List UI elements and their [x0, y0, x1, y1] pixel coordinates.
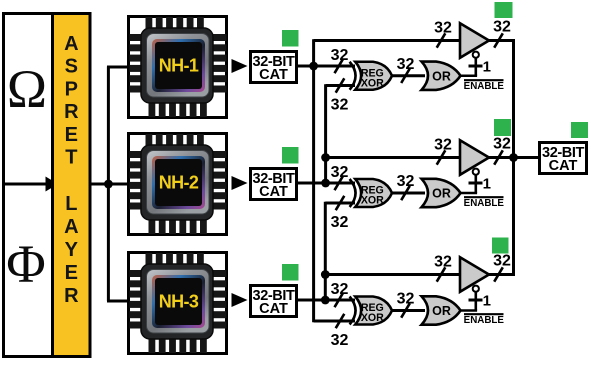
enable overline 2: [464, 196, 504, 198]
enable bubble buffer 2: [473, 169, 479, 175]
junction node C to buffer 3: [321, 270, 330, 279]
svg-text:32: 32: [434, 254, 452, 271]
32-bit cat output register: [540, 143, 587, 174]
arrowhead into aspret layer: [46, 177, 59, 192]
junction cat3 node: [321, 296, 330, 305]
svg-text:CAT: CAT: [549, 158, 578, 174]
wire node B vertical (cat2 feed): [324, 84, 327, 183]
1-bit tick enable 1: [469, 65, 483, 68]
green indicator above cat 1: [282, 30, 299, 47]
bus slash xor 3 output: [401, 303, 410, 317]
wire chip feed vertical: [107, 67, 110, 302]
svg-text:ENABLE: ENABLE: [464, 81, 505, 92]
bus slash xor 2 lower input: [336, 196, 345, 210]
green indicator output cat: [571, 122, 588, 138]
chip NH-1: [129, 17, 227, 118]
wire xor 2 to or 2: [392, 192, 425, 195]
wire enable vertical 3: [474, 292, 477, 311]
wire bus to output cat: [514, 156, 541, 159]
green indicator above cat 3: [282, 264, 299, 281]
green indicator above cat 2: [282, 147, 299, 164]
svg-text:NH-2: NH-2: [159, 173, 199, 193]
enable bubble buffer 1: [473, 52, 479, 58]
wire buffer 1 input (top run): [314, 39, 461, 42]
svg-text:32: 32: [434, 137, 452, 154]
wire node C vertical (cat3 feed): [324, 202, 327, 300]
junction cat1 node: [309, 62, 318, 71]
bus slash xor 2 upper input: [335, 176, 344, 190]
wire buffer 2 output: [489, 156, 515, 159]
tri-state buffer Q1: [460, 23, 489, 58]
svg-text:Φ: Φ: [6, 234, 45, 294]
svg-text:NH-1: NH-1: [159, 56, 199, 76]
svg-text:OR: OR: [432, 187, 451, 201]
bus slash buffer 1 input: [437, 33, 446, 47]
wire xor 3 lower input: [314, 320, 355, 323]
xor gate U1 (REG XOR): [350, 62, 392, 90]
arrowhead chip NH-3 to cat: [232, 293, 248, 307]
wire node A vertical (cat1 feed): [312, 39, 315, 322]
wire or 2 output to enable: [461, 192, 478, 195]
svg-text:32: 32: [397, 56, 415, 73]
svg-text:T: T: [65, 147, 77, 169]
svg-text:32: 32: [331, 164, 349, 181]
chip NH-3: [129, 253, 227, 354]
bus slash buffer 1 output: [494, 33, 503, 47]
green indicator buffer 3 output: [492, 238, 509, 254]
wire buffer 3 output: [489, 273, 515, 276]
bus slash xor 3 upper input: [335, 293, 344, 307]
wire buffer 3 input run: [325, 273, 461, 276]
chip NH-2: [129, 134, 227, 235]
svg-text:32: 32: [493, 253, 511, 270]
svg-text:32: 32: [493, 19, 511, 36]
svg-text:NH-3: NH-3: [159, 292, 199, 312]
1-bit tick enable 3: [469, 299, 483, 302]
svg-text:CAT: CAT: [259, 184, 288, 200]
svg-text:Ω: Ω: [7, 59, 47, 119]
wire buffer 2 input run: [326, 156, 461, 159]
bus slash xor 1 output: [401, 69, 410, 84]
wire enable vertical 1: [474, 58, 477, 76]
wire cat 2 output to xor: [296, 182, 355, 185]
wire to chip NH-2: [108, 183, 129, 186]
svg-text:32: 32: [331, 214, 349, 231]
svg-text:32: 32: [331, 281, 349, 298]
svg-text:E: E: [65, 124, 78, 146]
1-bit tick enable 2: [469, 182, 483, 185]
32-bit cat register 1: [251, 52, 297, 83]
32-bit cat register 2: [251, 169, 297, 200]
junction feed node: [104, 180, 113, 189]
wire output bus vertical: [512, 39, 515, 276]
svg-text:CAT: CAT: [259, 301, 288, 317]
input source box (omega/phi): [4, 14, 54, 357]
arrowhead chip NH-2 to cat: [232, 176, 248, 190]
enable overline 3: [464, 313, 504, 315]
svg-text:1: 1: [483, 59, 491, 76]
aspret layer block: [53, 14, 91, 357]
or gate U5 (OR): [422, 179, 461, 207]
arrowhead chip NH-1 to cat: [232, 59, 248, 73]
svg-text:OR: OR: [432, 69, 451, 83]
enable overline 1: [464, 79, 504, 81]
wire xor 3 to or 3: [392, 309, 425, 312]
svg-text:32: 32: [331, 332, 349, 349]
wire omega-phi to aspret layer: [4, 183, 47, 186]
svg-text:XOR: XOR: [361, 195, 384, 207]
svg-text:CAT: CAT: [259, 67, 288, 83]
svg-text:R: R: [64, 101, 79, 123]
svg-text:32: 32: [397, 173, 415, 190]
junction cat2 node: [321, 179, 330, 188]
or gate U6 (OR): [422, 296, 461, 324]
svg-text:ENABLE: ENABLE: [464, 198, 505, 209]
wire cat 3 output to xor: [296, 299, 355, 302]
xor gate U2 (REG XOR): [350, 179, 392, 207]
junction output bus node: [509, 153, 518, 162]
svg-text:Y: Y: [65, 239, 79, 261]
svg-text:OR: OR: [432, 304, 451, 318]
svg-text:1: 1: [483, 293, 491, 310]
tri-state buffer Q2: [460, 140, 489, 175]
wire buffer 1 output: [489, 39, 515, 42]
svg-text:32: 32: [331, 97, 349, 114]
green indicator buffer 1 output: [495, 2, 513, 18]
wire or 3 output to enable: [461, 309, 478, 312]
wire or 1 output to enable: [461, 74, 478, 77]
bus slash buffer 3 output: [494, 267, 503, 281]
svg-text:32: 32: [493, 136, 511, 153]
tri-state buffer Q3: [460, 257, 489, 292]
bus slash xor 1 lower input: [336, 78, 345, 92]
wire to chip NH-3: [107, 300, 129, 303]
bus slash xor 3 lower input: [336, 314, 345, 328]
wire xor 1 lower input: [326, 84, 355, 87]
wire enable vertical 2: [474, 175, 477, 193]
wire xor 2 lower input: [325, 202, 355, 205]
enable bubble buffer 3: [473, 286, 479, 292]
svg-text:E: E: [65, 262, 78, 284]
svg-text:XOR: XOR: [361, 77, 384, 89]
wire aspret layer output: [90, 183, 108, 186]
or gate U4 (OR): [422, 62, 461, 90]
bus slash buffer 2 output: [494, 150, 503, 164]
svg-text:P: P: [65, 78, 78, 100]
svg-text:S: S: [65, 56, 78, 78]
wire to chip NH-1: [107, 66, 129, 69]
bus slash buffer 3 input: [437, 267, 446, 281]
svg-text:1: 1: [483, 176, 491, 193]
bus slash xor 1 upper input: [335, 59, 344, 73]
32-bit cat register 3: [251, 286, 297, 317]
svg-text:32: 32: [434, 20, 452, 37]
wire xor 1 to or 1: [392, 74, 425, 77]
green indicator buffer 2 output: [494, 119, 511, 136]
bus slash buffer 2 input: [437, 150, 446, 164]
junction node B to buffer 2: [321, 153, 330, 162]
xor gate U3 (REG XOR): [350, 297, 392, 325]
wire cat 1 output to xor: [296, 65, 355, 68]
svg-text:XOR: XOR: [361, 312, 384, 324]
svg-text:L: L: [65, 193, 77, 215]
bus slash xor 2 output: [401, 186, 410, 200]
svg-text:A: A: [64, 33, 78, 55]
svg-text:32: 32: [397, 291, 415, 308]
svg-text:A: A: [64, 216, 78, 238]
svg-text:R: R: [64, 285, 79, 307]
svg-text:32: 32: [331, 47, 349, 64]
svg-text:ENABLE: ENABLE: [464, 315, 505, 326]
